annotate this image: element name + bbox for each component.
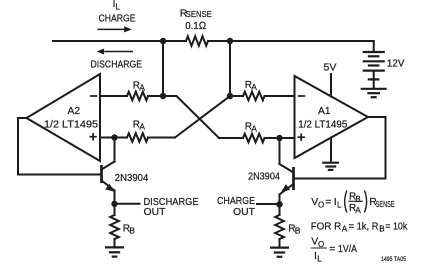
equation FOR RA = 1k, RB = 10k	[311, 221, 408, 234]
node left minus junction	[160, 93, 166, 99]
equation VO/IL = 1V/A	[311, 236, 357, 264]
wire vertical from right rail node down	[229, 41, 231, 96]
svg-text:1/2 LT1495: 1/2 LT1495	[44, 119, 98, 131]
wire A1 output loop to Q1 base	[295, 117, 386, 179]
wire A1 ground lead	[330, 138, 332, 163]
svg-text:CHARGE: CHARGE	[99, 12, 136, 24]
resistor RB right	[275, 204, 284, 247]
svg-text:B: B	[379, 225, 384, 234]
svg-text:A: A	[355, 206, 361, 215]
ground below RB right	[270, 248, 289, 257]
battery 12V	[363, 41, 385, 89]
A2 non-inverting input plus sign	[89, 133, 96, 140]
op-amp A1	[295, 76, 369, 158]
resistor RB left	[110, 204, 119, 247]
wire charge out	[257, 203, 280, 205]
wire RA to A1 inverting input	[265, 95, 295, 97]
svg-text:A: A	[139, 82, 145, 92]
svg-text:A: A	[251, 123, 257, 133]
svg-text:=: =	[329, 243, 335, 255]
svg-text:= 10k: = 10k	[385, 221, 408, 233]
resistor RA (right bottom)	[243, 134, 265, 143]
node A1 plus junction	[276, 135, 282, 141]
wire top rail right of RSENSE	[208, 40, 374, 42]
svg-text:A: A	[342, 225, 348, 234]
svg-text:=: =	[325, 196, 331, 208]
svg-text:12V: 12V	[387, 58, 405, 70]
wire crossing diagonal from left minus node down to right plus line	[163, 96, 219, 138]
svg-text:A: A	[139, 121, 145, 131]
wire right top to RA	[230, 95, 243, 97]
svg-text:1495 TA05: 1495 TA05	[381, 257, 407, 263]
transistor Q2 2N3904	[102, 138, 115, 204]
svg-text:SENSE: SENSE	[186, 9, 212, 19]
svg-text:L: L	[317, 254, 322, 263]
svg-text:A: A	[251, 82, 257, 92]
wire top rail left of RSENSE	[53, 40, 186, 42]
A1 inverting input minus sign	[298, 95, 305, 97]
wire A2 output feedback loop to Q2 base	[18, 118, 100, 175]
resistor RA (left bottom)	[127, 133, 148, 142]
wire vertical from left rail node down	[162, 41, 164, 96]
wire discharge out	[115, 203, 140, 205]
wire right bottom to RA	[219, 137, 243, 139]
node A2 plus junction	[111, 134, 117, 140]
A2 inverting input minus sign	[90, 95, 97, 97]
transistor Q1 2N3904	[280, 138, 294, 204]
svg-text:1/2 LT1495: 1/2 LT1495	[298, 119, 347, 131]
wire 5V supply lead	[330, 74, 332, 96]
svg-text:B: B	[129, 225, 135, 235]
ground below A1	[322, 163, 339, 170]
svg-text:O: O	[318, 200, 324, 209]
svg-text:2N3904: 2N3904	[115, 173, 149, 184]
ground below battery	[361, 89, 387, 97]
resistor RSENSE	[186, 36, 208, 46]
node charge out junction	[276, 201, 282, 207]
ground below RB left	[105, 247, 124, 256]
svg-text:DISCHARGE: DISCHARGE	[91, 59, 143, 71]
svg-text:B: B	[295, 225, 301, 235]
node junction right of RSENSE	[227, 38, 233, 44]
wire crossing diagonal from left plus line up to right minus node	[175, 96, 230, 138]
node right minus junction	[227, 93, 233, 99]
svg-text:OUT: OUT	[233, 206, 256, 218]
wire RA to A1 non-inverting input	[265, 137, 295, 139]
wire A2 inverting input	[100, 95, 127, 97]
svg-text:5V: 5V	[324, 62, 337, 74]
resistor RA (left top)	[127, 92, 148, 101]
discharge direction arrow	[97, 49, 134, 55]
wire RA to diagonal	[148, 137, 175, 139]
equation VO = IL (RB/RA) RSENSE	[311, 191, 395, 216]
node junction left of RSENSE	[160, 38, 166, 44]
op-amp A2	[27, 74, 101, 161]
svg-text:FOR R: FOR R	[311, 221, 342, 233]
svg-text:2N3904: 2N3904	[248, 171, 280, 182]
svg-text:SENSE: SENSE	[376, 199, 395, 209]
svg-text:1V/A: 1V/A	[338, 243, 357, 255]
A1 non-inverting input plus sign	[298, 134, 305, 141]
charge direction arrow	[98, 26, 132, 32]
svg-text:L: L	[337, 201, 342, 210]
node discharge out junction	[111, 201, 117, 207]
resistor RA (right top)	[243, 92, 265, 101]
wire A2 non-inverting input	[100, 137, 127, 139]
svg-text:OUT: OUT	[144, 206, 167, 218]
svg-text:L: L	[116, 3, 121, 12]
svg-text:= 1k, R: = 1k, R	[349, 221, 379, 233]
svg-text:A2: A2	[68, 105, 81, 117]
wire RA to node	[148, 95, 163, 97]
svg-text:A1: A1	[318, 105, 331, 117]
svg-text:0.1Ω: 0.1Ω	[185, 20, 206, 32]
